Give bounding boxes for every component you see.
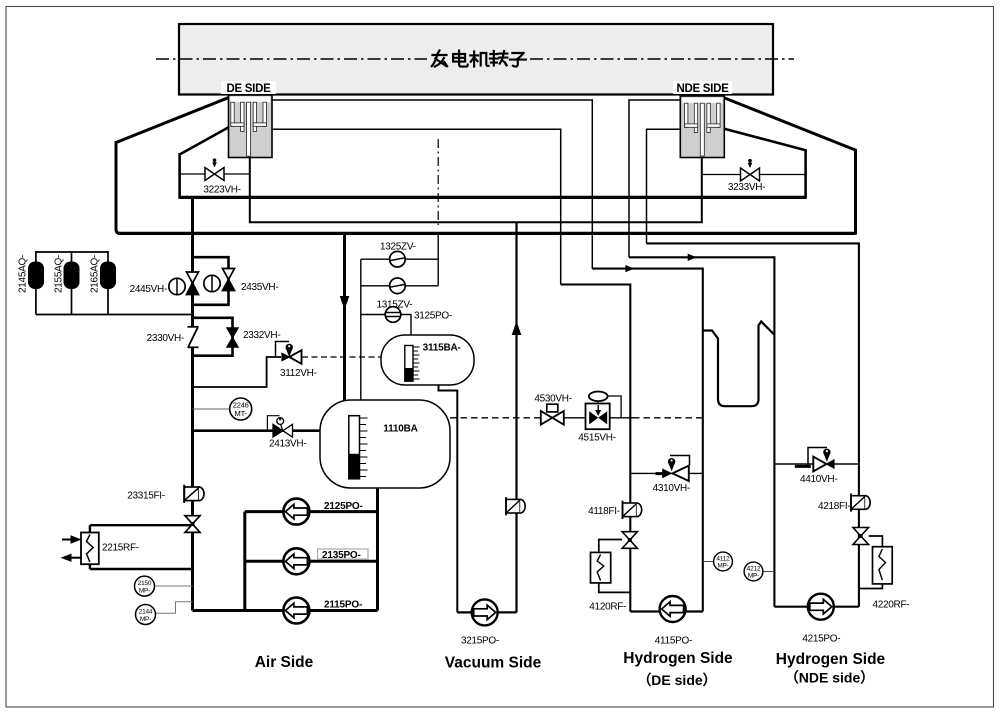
svg-text:2435VH-: 2435VH- <box>241 282 278 293</box>
wire: 4310VH positioner link <box>670 456 690 466</box>
pump 3215PO <box>472 599 498 625</box>
svg-text:4115PO-: 4115PO- <box>655 636 692 647</box>
wire: NDE hydrogen bottom run <box>774 606 859 608</box>
wire: U-trap between hydrogen loops <box>703 322 775 407</box>
wire: DE seal lower port to hydrogen DE left riser <box>272 129 630 611</box>
wire: NDE inner diagonal <box>723 129 806 151</box>
svg-text:4220RF-: 4220RF- <box>873 600 910 611</box>
gas bottle 2155AQ <box>64 262 80 290</box>
wire: DE inner vertical <box>178 153 181 199</box>
label 3115BA <box>423 343 461 354</box>
wire: air RF loop <box>90 525 193 569</box>
svg-text:4218FI-: 4218FI- <box>818 501 850 512</box>
wire: DE seal upper port to hydrogen DE right riser <box>272 100 703 612</box>
wire: 4212MP tap <box>763 571 775 573</box>
label 1325ZV <box>380 242 416 253</box>
valve 3233VH <box>741 159 760 181</box>
wire: DE outer diagonal <box>116 97 230 142</box>
flow sight 4118FI <box>623 501 642 519</box>
wire: NDE outer diagonal <box>723 98 856 151</box>
svg-text:2150: 2150 <box>138 580 152 587</box>
label 4310VH <box>653 483 690 494</box>
svg-text:3233VH-: 3233VH- <box>728 182 765 193</box>
generator rotor body 发电机转子 <box>179 24 773 95</box>
svg-text:Hydrogen Side: Hydrogen Side <box>623 650 733 667</box>
wire: main air line vertical <box>191 197 194 610</box>
flow sight on vacuum riser <box>506 497 525 515</box>
node: center dash-dot line <box>437 139 439 225</box>
flow sight 4218FI <box>851 493 870 511</box>
svg-text:2155AQ-: 2155AQ- <box>54 255 65 293</box>
valve DE hydrogen isolation <box>622 532 637 549</box>
svg-text:4215PO-: 4215PO- <box>802 634 840 645</box>
label 2135PO boxed <box>318 549 369 561</box>
caption Vacuum Side <box>445 655 542 672</box>
svg-text:Vacuum Side: Vacuum Side <box>445 655 542 672</box>
rotor centerline (dash-dot) <box>156 58 794 60</box>
arrow down on vacuum main <box>340 296 350 310</box>
instrument 4112MP <box>714 552 733 571</box>
control valve 3112VH <box>276 342 302 364</box>
valve 2435VH with gauge <box>204 269 235 292</box>
flow sight 23315FI <box>184 485 204 503</box>
wire: 4410VH line <box>774 463 859 465</box>
wire: 2150MP tap <box>155 585 193 587</box>
caption Air Side <box>255 654 314 671</box>
filter 4220RF <box>873 547 893 584</box>
svg-text:3115BA-: 3115BA- <box>423 343 461 354</box>
instrument 2150MP <box>135 576 155 596</box>
NDE SIDE label <box>673 81 732 95</box>
label 1315ZV <box>377 300 413 311</box>
label 4515VH <box>578 433 615 444</box>
svg-text:Hydrogen Side: Hydrogen Side <box>776 651 886 668</box>
wire: vacuum side right riser <box>515 222 517 612</box>
arrow on DE hydrogen supply <box>625 265 634 272</box>
wire: NDE seal upper port to hydrogen NDE left riser <box>629 100 774 607</box>
label 2155AQ <box>54 255 65 293</box>
svg-text:Air Side: Air Side <box>255 654 314 671</box>
label 4115PO <box>655 636 692 647</box>
wire: DE RF bypass loop <box>599 540 631 593</box>
filter 4120RF <box>591 552 611 583</box>
DE shaft seal block <box>229 95 273 158</box>
svg-text:3215PO-: 3215PO- <box>461 636 499 647</box>
control valve 2413VH <box>267 416 292 437</box>
label 2332VH <box>243 330 280 341</box>
wire: hydrogen feed dashed line <box>450 417 703 419</box>
label 2435VH <box>241 282 278 293</box>
arrow on NDE hydrogen supply <box>688 254 697 261</box>
svg-text:1325ZV-: 1325ZV- <box>380 242 416 253</box>
svg-text:2165AQ-: 2165AQ- <box>90 255 101 293</box>
label 发电机转子 (stroke-drawn CJK glyphs) <box>432 51 526 67</box>
svg-text:4212: 4212 <box>747 566 761 573</box>
DE SIDE label <box>221 81 276 95</box>
valve 3223VH <box>205 158 224 180</box>
wire: inner header <box>180 196 806 199</box>
label 2215RF <box>102 543 139 554</box>
label 2125PO <box>324 501 363 512</box>
wire: NDE seal lower port to hydrogen NDE right riser <box>647 129 859 606</box>
svg-text:MT-: MT- <box>235 409 248 418</box>
svg-text:2144: 2144 <box>139 608 153 615</box>
label 4410VH <box>800 474 837 485</box>
solenoid valve 1315ZV <box>385 307 401 323</box>
pump 2115PO <box>283 598 309 624</box>
pump 4215PO <box>808 594 834 620</box>
svg-text:1110BA: 1110BA <box>383 424 417 435</box>
pump 2125PO <box>283 499 309 525</box>
tank 3115BA <box>381 335 474 385</box>
label 2145AQ <box>18 255 29 293</box>
valve 2330VH (slash) <box>187 327 199 348</box>
svg-text:2145AQ-: 2145AQ- <box>18 255 29 293</box>
wire: DE hydrogen bottom run <box>630 610 703 612</box>
wire: 3112VH feed line <box>193 357 282 387</box>
svg-text:4310VH-: 4310VH- <box>653 483 690 494</box>
wire: 2330/2332 bypass loop <box>193 318 233 356</box>
valve NDE hydrogen isolation <box>853 528 869 545</box>
svg-text:（DE side）: （DE side） <box>637 672 716 688</box>
svg-text:4112: 4112 <box>716 556 730 563</box>
label 4118FI <box>588 506 620 517</box>
svg-text:（NDE side）: （NDE side） <box>785 670 874 686</box>
wire: 4112MP tap <box>703 561 714 563</box>
pump 4115PO <box>660 596 686 622</box>
instrument 2246MT <box>230 398 252 420</box>
svg-text:1315ZV-: 1315ZV- <box>377 300 413 311</box>
label 4218FI <box>818 501 850 512</box>
svg-text:3223VH-: 3223VH- <box>203 185 240 196</box>
NDE shaft seal block <box>680 96 724 158</box>
svg-text:2125PO-: 2125PO- <box>324 501 363 512</box>
solenoid valve (lower purge) <box>390 278 406 294</box>
wire: 3115BA drain <box>439 384 458 612</box>
label 4530VH <box>534 394 571 405</box>
svg-text:2135PO-: 2135PO- <box>322 550 361 561</box>
filter 2215RF <box>81 533 99 565</box>
label 2445VH <box>130 284 167 295</box>
label 3112VH <box>280 368 317 379</box>
valve 2445VH with gauge <box>169 272 199 295</box>
wire: outer bottom header <box>118 232 856 235</box>
wire: vacuum pump bottom run <box>457 611 516 613</box>
svg-text:DE SIDE: DE SIDE <box>227 83 272 95</box>
wire: AQ cylinder manifold <box>36 251 193 315</box>
wire: outer left vertical <box>116 141 120 233</box>
svg-text:2115PO-: 2115PO- <box>324 600 362 611</box>
wire: 4410VH positioner link <box>808 448 827 466</box>
wire: 3112VH outlet (dashed) <box>302 356 381 358</box>
label 3125PO <box>414 311 452 322</box>
svg-text:23315FI-: 23315FI- <box>127 491 165 502</box>
svg-text:MP-: MP- <box>717 563 728 570</box>
label 3223VH <box>203 185 240 196</box>
label 4120RF <box>589 602 626 613</box>
svg-text:4530VH-: 4530VH- <box>534 394 571 405</box>
svg-text:MP-: MP- <box>748 573 759 580</box>
control valve 4410VH <box>795 449 834 472</box>
label 3233VH <box>728 182 765 193</box>
svg-text:MP-: MP- <box>140 616 151 623</box>
wire: NDE RF bypass loop <box>859 536 883 589</box>
svg-text:4515VH-: 4515VH- <box>578 433 615 444</box>
label 2165AQ <box>90 255 101 293</box>
solenoid valve 1325ZV <box>390 251 406 267</box>
caption Hydrogen Side DE <box>623 650 733 688</box>
wire: NDE inner vertical <box>804 150 807 199</box>
wire: outer right vertical (NDE) <box>854 149 857 235</box>
label 2413VH <box>269 439 306 450</box>
label 2115PO <box>324 600 362 611</box>
svg-text:2215RF-: 2215RF- <box>102 543 139 554</box>
wire: 3233VH bypass line <box>702 174 806 176</box>
valve 2332VH (black) <box>227 328 238 347</box>
svg-text:4410VH-: 4410VH- <box>800 474 837 485</box>
svg-text:4120RF-: 4120RF- <box>589 602 626 613</box>
wire: 3223VH bypass line <box>180 173 250 175</box>
wire: 2215RF inlet arrow <box>62 535 82 543</box>
wire: 2445/2435 bypass loop <box>193 257 229 305</box>
label 3215PO <box>461 636 499 647</box>
arrow up on vacuum riser <box>512 321 522 335</box>
wire: air pump manifold <box>193 487 378 611</box>
wire: 2413VH line to tank <box>193 429 322 432</box>
svg-text:2330VH-: 2330VH- <box>147 333 184 344</box>
wire: 4310VH branch <box>630 472 703 474</box>
gas bottle 2145AQ <box>28 262 44 290</box>
label 4215PO <box>802 634 840 645</box>
svg-text:NDE SIDE: NDE SIDE <box>677 83 730 95</box>
svg-text:2445VH-: 2445VH- <box>130 284 167 295</box>
svg-text:3112VH-: 3112VH- <box>280 368 317 379</box>
wire: 2246MT tap <box>193 408 230 410</box>
wire: seal drain loop DE-NDE (medium header) <box>250 157 702 222</box>
svg-text:2413VH-: 2413VH- <box>269 439 306 450</box>
wire: vacuum main drop <box>343 233 346 404</box>
svg-text:2332VH-: 2332VH- <box>243 330 280 341</box>
wire: DE inner diagonal <box>180 127 230 155</box>
svg-text:MP-: MP- <box>139 588 150 595</box>
valve air side isolation <box>185 516 200 533</box>
caption Hydrogen Side NDE <box>776 651 886 686</box>
instrument 2144MP <box>136 605 156 625</box>
label 2330VH <box>147 333 184 344</box>
wire: 2144MP tap <box>156 602 193 614</box>
wire: 4515VH handwheel linkage <box>607 396 621 418</box>
label 4220RF <box>873 600 910 611</box>
valve 4530VH <box>541 404 564 425</box>
tank 1110BA <box>320 400 450 488</box>
wire: ZV purge loop <box>361 233 438 404</box>
pump 2135PO <box>283 548 309 574</box>
label 1110BA <box>383 424 417 435</box>
control valve 4310VH <box>656 458 689 481</box>
wire: 2215RF outlet arrow <box>61 554 82 562</box>
gas bottle 2165AQ <box>100 262 116 290</box>
svg-text:4118FI-: 4118FI- <box>588 506 620 517</box>
svg-text:3125PO-: 3125PO- <box>414 311 452 322</box>
instrument 4212MP <box>744 562 763 581</box>
valve 4515VH (boxed with handwheel) <box>586 392 610 430</box>
label 23315FI <box>127 491 165 502</box>
